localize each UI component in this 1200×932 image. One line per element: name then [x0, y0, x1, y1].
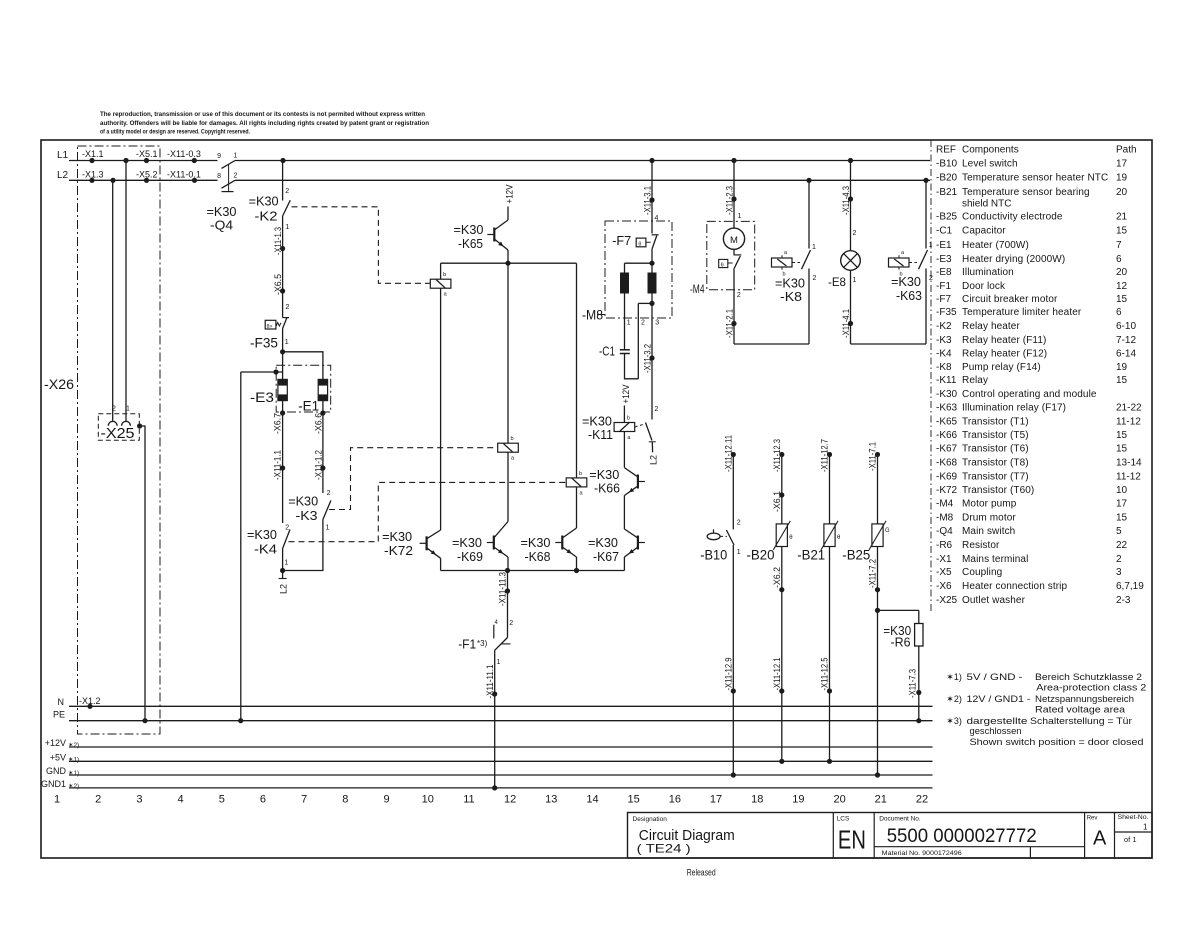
svg-text:2: 2 [929, 275, 933, 282]
svg-text:Area-protection class 2: Area-protection class 2 [1036, 683, 1146, 693]
svg-text:2: 2 [285, 525, 289, 532]
svg-text:15: 15 [1116, 430, 1128, 441]
svg-text:11: 11 [463, 794, 474, 806]
svg-text:-E1: -E1 [298, 398, 319, 414]
svg-text:-F35: -F35 [250, 335, 278, 351]
svg-text:-X5: -X5 [936, 567, 952, 578]
svg-text:2: 2 [112, 406, 116, 413]
svg-text:Temperature sensor heater NTC: Temperature sensor heater NTC [962, 173, 1108, 184]
svg-text:10: 10 [422, 794, 434, 806]
svg-text:✶1): ✶1) [68, 755, 79, 763]
svg-text:2: 2 [285, 188, 289, 195]
svg-text:*3): *3) [477, 639, 488, 648]
svg-text:7-12: 7-12 [1116, 335, 1136, 346]
svg-text:Main switch: Main switch [962, 526, 1015, 537]
svg-text:-R6: -R6 [891, 635, 911, 650]
svg-text:18: 18 [751, 794, 763, 806]
svg-text:Transistor (T1): Transistor (T1) [962, 416, 1029, 427]
svg-text:geschlossen: geschlossen [970, 726, 1022, 736]
svg-text:authority. Offenders will be l: authority. Offenders will be liable for … [100, 120, 429, 127]
svg-text:-B10: -B10 [936, 159, 958, 170]
svg-text:✶2): ✶2) [68, 741, 79, 749]
svg-text:✶1): ✶1) [946, 672, 962, 682]
svg-text:Mains terminal: Mains terminal [962, 554, 1028, 565]
svg-text:-K68: -K68 [525, 549, 551, 564]
svg-text:20: 20 [1116, 187, 1128, 198]
svg-text:1: 1 [737, 549, 741, 556]
svg-text:-X11-12.1: -X11-12.1 [772, 658, 782, 691]
svg-text:-B25: -B25 [842, 547, 870, 563]
svg-text:1: 1 [284, 560, 288, 567]
svg-text:-B20: -B20 [936, 173, 958, 184]
svg-text:12V / GND1 -: 12V / GND1 - [967, 694, 1031, 704]
svg-text:Heater connection strip: Heater connection strip [962, 581, 1067, 592]
svg-text:5: 5 [219, 794, 225, 806]
svg-text:-K67: -K67 [593, 549, 619, 564]
svg-text:-K66: -K66 [594, 481, 620, 496]
svg-text:Temperature limiter heater: Temperature limiter heater [962, 307, 1082, 318]
svg-text:Relay heater (F12): Relay heater (F12) [962, 348, 1047, 359]
svg-text:+12V: +12V [505, 185, 515, 204]
svg-text:-X11-11.1: -X11-11.1 [485, 665, 495, 699]
svg-text:Pump relay (F14): Pump relay (F14) [962, 362, 1041, 373]
svg-text:Transistor (T8): Transistor (T8) [962, 458, 1029, 469]
svg-text:1: 1 [497, 659, 501, 666]
svg-text:Netzspannungsbereich: Netzspannungsbereich [1035, 694, 1134, 704]
svg-text:Released: Released [687, 868, 716, 879]
svg-text:( TE24 ): ( TE24 ) [637, 842, 691, 856]
svg-text:Document No.: Document No. [879, 816, 921, 823]
svg-text:20: 20 [833, 794, 845, 806]
svg-text:-E8: -E8 [828, 275, 846, 289]
svg-text:2: 2 [641, 320, 645, 327]
svg-text:-X11-3.2: -X11-3.2 [643, 344, 653, 373]
svg-text:1: 1 [126, 406, 130, 413]
svg-text:9: 9 [383, 794, 389, 806]
svg-text:11-12: 11-12 [1116, 416, 1141, 427]
svg-text:-F7: -F7 [936, 294, 951, 305]
svg-text:-B25: -B25 [936, 212, 958, 223]
svg-text:=K30: =K30 [288, 494, 318, 509]
svg-text:Relay heater (F11): Relay heater (F11) [962, 335, 1046, 346]
svg-text:G: G [885, 528, 890, 534]
svg-text:-X11-1.1: -X11-1.1 [273, 450, 283, 480]
svg-text:1: 1 [326, 525, 330, 532]
svg-text:b: b [443, 272, 446, 278]
svg-text:-B10: -B10 [700, 547, 727, 563]
svg-text:-K3: -K3 [296, 508, 318, 523]
svg-text:-F35: -F35 [936, 307, 957, 318]
svg-text:-X11-0.3: -X11-0.3 [167, 149, 201, 159]
svg-text:Rev: Rev [1087, 816, 1098, 822]
svg-text:2: 2 [853, 230, 857, 237]
svg-text:21: 21 [1116, 212, 1128, 223]
svg-text:17: 17 [1116, 499, 1128, 510]
svg-text:Coupling: Coupling [962, 567, 1002, 578]
svg-text:-X6.1: -X6.1 [772, 491, 782, 512]
svg-text:=K30: =K30 [452, 535, 482, 550]
svg-text:Capacitor: Capacitor [962, 226, 1006, 237]
svg-text:L2: L2 [279, 584, 289, 594]
svg-text:-X11-4.3: -X11-4.3 [841, 186, 851, 215]
svg-text:-X6.6: -X6.6 [314, 413, 324, 434]
svg-text:N: N [58, 697, 65, 707]
svg-text:22: 22 [1116, 540, 1128, 551]
svg-text:θ: θ [638, 242, 641, 248]
svg-text:15: 15 [1116, 294, 1128, 305]
svg-text:Transistor (T7): Transistor (T7) [962, 471, 1029, 482]
svg-text:19: 19 [1116, 173, 1128, 184]
svg-text:L1: L1 [57, 150, 69, 161]
svg-text:-X1.3: -X1.3 [82, 170, 104, 180]
svg-text:-E3: -E3 [936, 254, 952, 265]
svg-text:-X11-12.7: -X11-12.7 [820, 439, 830, 472]
svg-text:-X6.7: -X6.7 [273, 413, 283, 434]
svg-text:Conductivity electrode: Conductivity electrode [962, 212, 1063, 223]
svg-text:Outlet washer: Outlet washer [962, 595, 1026, 606]
svg-text:-F1: -F1 [458, 637, 476, 652]
svg-text:-K66: -K66 [936, 430, 958, 441]
svg-text:-X11-2.3: -X11-2.3 [725, 186, 735, 215]
svg-text:1: 1 [853, 277, 857, 284]
svg-text:Bereich Schutzklasse 2: Bereich Schutzklasse 2 [1035, 672, 1142, 682]
svg-text:-E8: -E8 [936, 267, 952, 278]
svg-text:-M4: -M4 [936, 499, 954, 510]
svg-text:b: b [627, 416, 630, 422]
svg-text:13: 13 [545, 794, 557, 806]
svg-text:-X11-4.1: -X11-4.1 [841, 309, 851, 338]
svg-text:-K63: -K63 [936, 402, 958, 413]
svg-text:6,7,19: 6,7,19 [1116, 581, 1144, 592]
svg-text:-K8: -K8 [780, 289, 802, 304]
svg-text:-K2: -K2 [255, 209, 278, 224]
svg-text:+12V: +12V [45, 738, 66, 748]
svg-text:16: 16 [669, 794, 681, 806]
svg-text:of 1: of 1 [1124, 835, 1137, 844]
svg-text:-E3: -E3 [250, 389, 274, 405]
svg-text:✶2): ✶2) [946, 694, 962, 704]
svg-text:LCS: LCS [837, 816, 850, 823]
svg-text:-K63: -K63 [896, 288, 922, 303]
svg-text:21: 21 [875, 794, 887, 806]
svg-text:θ>: θ> [267, 324, 273, 330]
svg-text:2: 2 [813, 275, 817, 282]
svg-text:-X25: -X25 [936, 595, 958, 606]
svg-text:-X6: -X6 [936, 581, 952, 592]
svg-text:Heater (700W): Heater (700W) [962, 240, 1029, 251]
svg-text:L2: L2 [649, 455, 659, 465]
svg-text:-M4: -M4 [690, 282, 705, 296]
svg-text:Circuit breaker motor: Circuit breaker motor [962, 294, 1058, 305]
svg-text:21-22: 21-22 [1116, 402, 1142, 413]
svg-text:✶2): ✶2) [68, 782, 79, 790]
svg-text:-K4: -K4 [254, 542, 277, 557]
svg-text:-B20: -B20 [747, 547, 775, 563]
svg-text:+5V: +5V [50, 752, 66, 762]
svg-text:=K30: =K30 [588, 535, 618, 550]
svg-text:REF: REF [936, 145, 956, 156]
svg-text:Level switch: Level switch [962, 159, 1018, 170]
svg-text:Components: Components [962, 145, 1019, 156]
svg-text:2: 2 [509, 620, 513, 627]
svg-text:=K30: =K30 [454, 222, 484, 237]
svg-text:7: 7 [1116, 240, 1122, 251]
svg-text:+12V: +12V [621, 385, 631, 404]
svg-text:-X11-7.2: -X11-7.2 [868, 559, 878, 588]
svg-text:Schalterstellung = Tür: Schalterstellung = Tür [1030, 716, 1132, 726]
svg-text:17: 17 [1116, 159, 1128, 170]
svg-text:-R6: -R6 [936, 540, 953, 551]
svg-text:1: 1 [812, 244, 816, 251]
svg-text:14: 14 [586, 794, 598, 806]
svg-text:GND1: GND1 [41, 779, 66, 789]
svg-text:1: 1 [627, 320, 631, 327]
svg-text:✶1): ✶1) [68, 769, 79, 777]
svg-text:3: 3 [655, 320, 659, 327]
svg-text:-X6.2: -X6.2 [772, 567, 782, 588]
svg-text:-K72: -K72 [936, 485, 958, 496]
svg-text:6-10: 6-10 [1116, 321, 1136, 332]
svg-text:-K11: -K11 [936, 375, 957, 386]
svg-text:15: 15 [1116, 513, 1128, 524]
svg-text:2: 2 [737, 292, 741, 299]
svg-text:-B21: -B21 [936, 187, 958, 198]
svg-text:1: 1 [285, 339, 289, 346]
svg-text:-X11-11.3: -X11-11.3 [498, 572, 508, 606]
svg-text:8: 8 [342, 794, 348, 806]
svg-text:1: 1 [1143, 823, 1148, 832]
svg-text:-X25: -X25 [101, 425, 135, 442]
svg-text:-X11-2.1: -X11-2.1 [725, 309, 735, 338]
svg-text:Transistor (T60): Transistor (T60) [962, 485, 1034, 496]
svg-text:EN: EN [838, 825, 866, 855]
svg-text:10: 10 [1116, 485, 1128, 496]
svg-text:-K3: -K3 [936, 335, 952, 346]
svg-text:1: 1 [54, 794, 60, 806]
svg-text:-X11-7.3: -X11-7.3 [908, 669, 918, 698]
svg-text:-K30: -K30 [936, 389, 958, 400]
svg-text:θ: θ [721, 262, 724, 268]
svg-text:6: 6 [1116, 254, 1122, 265]
svg-text:2: 2 [1116, 554, 1122, 565]
svg-text:-M8: -M8 [936, 513, 954, 524]
svg-text:Path: Path [1116, 145, 1137, 156]
svg-text:-X5.1: -X5.1 [136, 149, 158, 159]
svg-text:✶3): ✶3) [946, 716, 962, 726]
svg-text:-X11-3.1: -X11-3.1 [643, 186, 653, 215]
svg-text:2: 2 [737, 520, 741, 527]
svg-text:b: b [579, 471, 582, 477]
svg-text:Control operating and module: Control operating and module [962, 389, 1097, 400]
svg-text:5: 5 [1116, 526, 1122, 537]
svg-text:1: 1 [738, 213, 742, 220]
svg-text:6: 6 [260, 794, 266, 806]
svg-text:6: 6 [1116, 307, 1122, 318]
svg-text:-X1.1: -X1.1 [82, 149, 104, 159]
svg-text:2-3: 2-3 [1116, 595, 1131, 606]
svg-text:Resistor: Resistor [962, 540, 1000, 551]
svg-text:dargestellte: dargestellte [967, 716, 1028, 726]
svg-text:4: 4 [178, 794, 184, 806]
svg-text:Material No. 9000172496: Material No. 9000172496 [882, 850, 962, 857]
svg-text:-B21: -B21 [797, 547, 825, 563]
svg-text:-X11-7.1: -X11-7.1 [868, 442, 878, 471]
svg-text:-E1: -E1 [936, 240, 952, 251]
svg-text:=K30: =K30 [382, 529, 412, 544]
svg-text:Drum motor: Drum motor [962, 513, 1016, 524]
svg-text:19: 19 [792, 794, 804, 806]
svg-text:A: A [1093, 828, 1107, 850]
svg-text:GND: GND [46, 766, 67, 776]
svg-text:-C1: -C1 [599, 344, 615, 359]
svg-text:-X11-12.3: -X11-12.3 [772, 439, 782, 472]
svg-text:PE: PE [53, 710, 65, 720]
svg-text:-X11-12.11: -X11-12.11 [723, 435, 733, 472]
svg-text:2: 2 [655, 406, 659, 413]
svg-text:-K11: -K11 [588, 427, 613, 442]
svg-text:of a utility model or design a: of a utility model or design are reserve… [100, 129, 250, 136]
svg-text:1: 1 [234, 153, 238, 160]
svg-text:Rated voltage area: Rated voltage area [1035, 705, 1125, 715]
svg-text:-X6.5: -X6.5 [273, 274, 283, 295]
svg-text:2: 2 [95, 794, 101, 806]
svg-text:-K69: -K69 [457, 549, 483, 564]
svg-text:7: 7 [301, 794, 307, 806]
svg-text:9: 9 [217, 153, 221, 160]
svg-text:-X11-0.1: -X11-0.1 [167, 170, 201, 180]
svg-text:1: 1 [285, 224, 289, 231]
svg-text:Designation: Designation [633, 816, 668, 823]
svg-text:-X11-1.2: -X11-1.2 [314, 450, 324, 480]
svg-text:shield NTC: shield NTC [962, 199, 1011, 210]
svg-text:15: 15 [628, 794, 640, 806]
svg-text:-X11-1.3: -X11-1.3 [273, 227, 283, 255]
svg-text:-K69: -K69 [936, 471, 958, 482]
svg-text:=K30: =K30 [891, 274, 921, 289]
svg-text:-X11-12.5: -X11-12.5 [820, 658, 830, 691]
svg-text:-K68: -K68 [936, 458, 958, 469]
svg-text:1: 1 [929, 242, 933, 249]
svg-text:2: 2 [286, 304, 290, 311]
svg-text:=K30: =K30 [247, 527, 277, 542]
svg-text:-X26: -X26 [44, 376, 74, 392]
svg-text:-X1: -X1 [936, 554, 952, 565]
svg-text:L2: L2 [57, 170, 69, 181]
svg-text:Motor pump: Motor pump [962, 499, 1017, 510]
svg-text:11-12: 11-12 [1116, 471, 1141, 482]
svg-text:-X5.2: -X5.2 [136, 170, 158, 180]
svg-text:-Q4: -Q4 [936, 526, 953, 537]
svg-text:-K65: -K65 [458, 236, 483, 251]
svg-text:Illumination relay (F17): Illumination relay (F17) [962, 402, 1066, 413]
svg-text:M: M [730, 235, 738, 246]
svg-text:-K2: -K2 [936, 321, 952, 332]
svg-text:2: 2 [234, 173, 238, 180]
svg-text:-K72: -K72 [384, 543, 413, 558]
svg-text:15: 15 [1116, 226, 1128, 237]
svg-text:17: 17 [710, 794, 722, 806]
svg-text:=K30: =K30 [521, 535, 551, 550]
svg-text:15: 15 [1116, 444, 1128, 455]
svg-text:22: 22 [916, 794, 928, 806]
svg-text:13-14: 13-14 [1116, 458, 1142, 469]
svg-text:-X1.2: -X1.2 [79, 696, 101, 706]
svg-text:2: 2 [327, 490, 331, 497]
svg-text:Door lock: Door lock [962, 281, 1006, 292]
svg-text:Heater drying (2000W): Heater drying (2000W) [962, 254, 1065, 265]
svg-text:3: 3 [1116, 567, 1122, 578]
svg-text:Illumination: Illumination [962, 267, 1014, 278]
svg-text:-K4: -K4 [936, 348, 952, 359]
svg-text:Temperature sensor bearing: Temperature sensor bearing [962, 187, 1090, 198]
svg-text:-X11-12.9: -X11-12.9 [723, 658, 733, 691]
svg-text:Relay heater: Relay heater [962, 321, 1020, 332]
svg-text:=K30: =K30 [249, 194, 279, 209]
svg-text:12: 12 [1116, 281, 1128, 292]
svg-text:-F7: -F7 [612, 233, 631, 248]
svg-text:3: 3 [136, 794, 142, 806]
svg-text:-K65: -K65 [936, 416, 958, 427]
svg-text:Sheet-No.: Sheet-No. [1118, 815, 1149, 821]
svg-text:Relay: Relay [962, 375, 988, 386]
svg-text:15: 15 [1116, 375, 1128, 386]
svg-text:-Q4: -Q4 [210, 218, 233, 233]
svg-text:5V / GND -: 5V / GND - [967, 672, 1023, 682]
svg-text:8: 8 [217, 173, 221, 180]
svg-text:b: b [511, 436, 514, 442]
svg-text:-C1: -C1 [936, 226, 953, 237]
svg-text:20: 20 [1116, 267, 1128, 278]
svg-text:19: 19 [1116, 362, 1128, 373]
svg-text:Shown switch position = door c: Shown switch position = door closed [970, 737, 1144, 747]
svg-text:-K8: -K8 [936, 362, 952, 373]
svg-text:12: 12 [504, 794, 516, 806]
svg-text:6-14: 6-14 [1116, 348, 1136, 359]
svg-text:-K67: -K67 [936, 444, 958, 455]
svg-text:-F1: -F1 [936, 281, 951, 292]
svg-text:The reproduction, transmission: The reproduction, transmission or use of… [100, 111, 425, 118]
svg-text:Transistor (T5): Transistor (T5) [962, 430, 1029, 441]
svg-text:5500 0000027772: 5500 0000027772 [887, 826, 1037, 847]
svg-text:Transistor (T6): Transistor (T6) [962, 444, 1029, 455]
